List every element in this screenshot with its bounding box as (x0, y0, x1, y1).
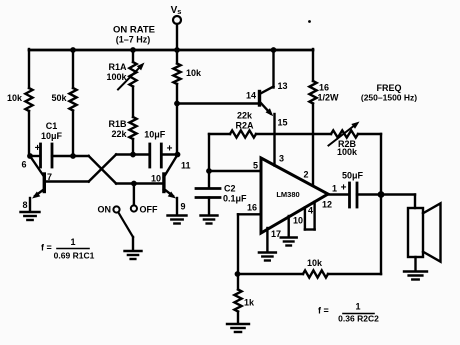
svg-text:10μF: 10μF (144, 130, 166, 140)
svg-text:+: + (167, 144, 173, 155)
svg-text:1: 1 (70, 237, 75, 247)
svg-text:0.69 R1C1: 0.69 R1C1 (54, 251, 95, 261)
svg-text:6: 6 (21, 160, 26, 170)
svg-text:3: 3 (279, 154, 284, 164)
svg-text:10k: 10k (7, 93, 23, 103)
svg-text:9: 9 (180, 202, 185, 212)
svg-text:10k: 10k (307, 258, 323, 268)
svg-text:(1–7 Hz): (1–7 Hz) (116, 35, 151, 45)
svg-text:17: 17 (271, 229, 281, 239)
svg-text:1: 1 (355, 302, 360, 312)
svg-text:f =: f = (318, 306, 329, 316)
svg-text:16: 16 (247, 203, 257, 213)
svg-text:50μF: 50μF (342, 171, 364, 181)
svg-text:16: 16 (319, 83, 329, 93)
svg-text:1k: 1k (244, 298, 255, 308)
svg-text:0.36 R2C2: 0.36 R2C2 (338, 314, 379, 324)
svg-text:+: + (35, 143, 41, 154)
svg-text:5: 5 (253, 161, 258, 171)
svg-text:1: 1 (332, 184, 337, 194)
svg-text:22k: 22k (237, 111, 253, 121)
svg-text:2: 2 (303, 170, 308, 180)
svg-text:0.1μF: 0.1μF (223, 194, 247, 204)
svg-text:LM380: LM380 (276, 190, 299, 199)
svg-text:14: 14 (246, 91, 256, 101)
svg-text:(250–1500 Hz): (250–1500 Hz) (361, 93, 417, 103)
svg-text:C1: C1 (46, 121, 58, 131)
svg-text:15: 15 (278, 118, 288, 128)
svg-text:10: 10 (151, 174, 161, 184)
svg-text:11: 11 (181, 161, 191, 171)
svg-text:R1B: R1B (108, 119, 127, 129)
svg-text:OFF: OFF (140, 205, 158, 215)
svg-text:C2: C2 (224, 184, 236, 194)
svg-text:R1A: R1A (108, 62, 127, 72)
svg-text:R2A: R2A (235, 121, 254, 131)
svg-text:+: + (341, 183, 347, 194)
svg-text:12: 12 (322, 200, 332, 210)
svg-text:50k: 50k (51, 93, 67, 103)
svg-text:22k: 22k (111, 129, 127, 139)
svg-text:f =: f = (41, 243, 52, 253)
svg-text:100k: 100k (337, 147, 358, 157)
svg-text:100k: 100k (106, 72, 127, 82)
svg-text:Vs: Vs (171, 5, 182, 16)
svg-text:ON: ON (98, 205, 112, 215)
svg-text:13: 13 (278, 81, 288, 91)
svg-text:10μF: 10μF (41, 131, 63, 141)
svg-text:8: 8 (22, 200, 27, 210)
svg-text:4: 4 (308, 206, 313, 216)
svg-text:FREQ: FREQ (376, 83, 401, 93)
svg-text:7: 7 (47, 172, 52, 182)
svg-text:1/2W: 1/2W (318, 93, 340, 103)
svg-text:10k: 10k (186, 68, 202, 78)
svg-text:10: 10 (293, 216, 303, 226)
